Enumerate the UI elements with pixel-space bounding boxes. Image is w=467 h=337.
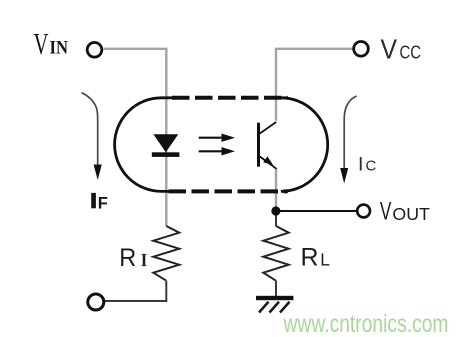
svg-text:CC: CC: [400, 42, 422, 63]
svg-text:V: V: [34, 26, 49, 61]
svg-text:OUT: OUT: [392, 204, 430, 224]
svg-text:C: C: [366, 158, 377, 175]
svg-text:www.cntronics.com: www.cntronics.com: [283, 310, 449, 337]
svg-text:R: R: [119, 244, 136, 272]
svg-text:I: I: [358, 154, 363, 176]
svg-text:V: V: [381, 34, 398, 65]
svg-text:V: V: [380, 198, 392, 226]
svg-text:L: L: [320, 250, 330, 270]
svg-text:I: I: [141, 250, 148, 270]
svg-text:IN: IN: [50, 39, 69, 59]
svg-text:R: R: [301, 244, 319, 272]
svg-text:F: F: [98, 195, 108, 213]
